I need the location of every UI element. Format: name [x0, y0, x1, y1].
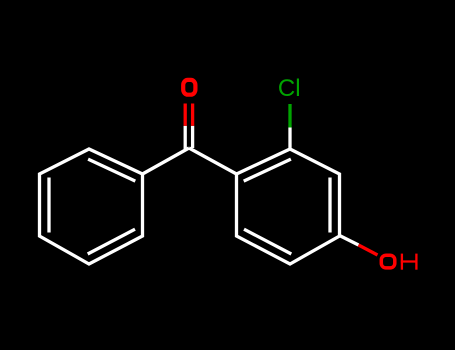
left phenyl ring — [40, 149, 143, 264]
atom O (carbonyl oxygen) — [183, 80, 195, 95]
right benzene ring — [237, 149, 340, 264]
right ring double bond (top-left edge) — [244, 159, 291, 181]
left ring double bond (bottom-right edge) — [88, 229, 135, 254]
bond ring to OH red outer half — [359, 245, 378, 255]
right ring double bond (right edge) — [328, 178, 331, 233]
bond carbonyl C to left ring — [143, 148, 190, 174]
left ring double bond (top-right edge) — [88, 159, 135, 181]
right ring double bond (bottom-left edge) — [244, 229, 291, 254]
bond ring to Cl white lower half — [288, 128, 291, 150]
left ring double bond (left edge) — [47, 178, 50, 233]
bond ring to Cl green upper half — [288, 104, 291, 128]
bond carbonyl C to right ring — [189, 148, 237, 174]
bond ring to OH white inner half — [340, 236, 359, 246]
svg-text:Cl: Cl — [278, 75, 301, 102]
atom label H of OH — [401, 254, 418, 270]
C=O double bond white lower halves — [184, 126, 187, 150]
atom O (hydroxyl oxygen) — [381, 255, 395, 268]
C=O double bond red upper halves — [184, 104, 187, 126]
